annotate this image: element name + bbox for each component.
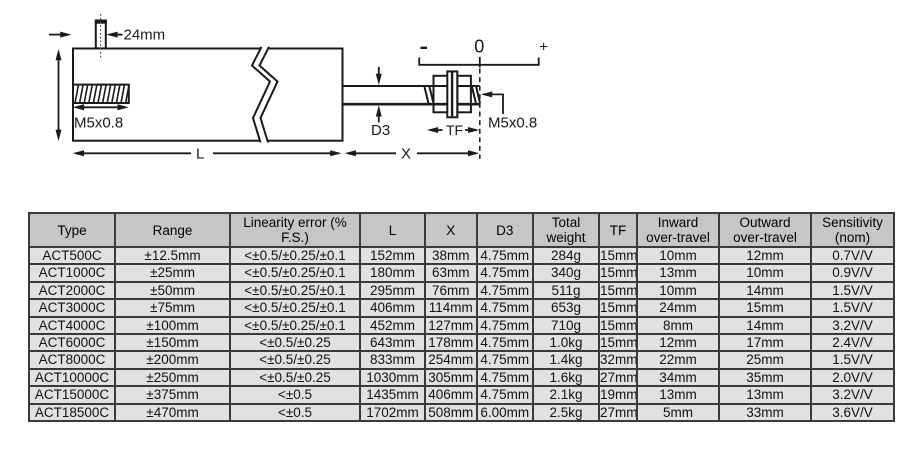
svg-text:D3: D3 <box>371 122 390 139</box>
svg-text:0: 0 <box>474 37 484 57</box>
leader M5x0.8 right <box>481 91 537 131</box>
shaft end hatch <box>472 87 480 103</box>
svg-text:+: + <box>539 39 548 56</box>
wire shaft bottom <box>343 103 480 106</box>
dim X <box>345 146 480 163</box>
flange washer <box>447 71 457 117</box>
thread hole hatch M5 <box>73 85 129 103</box>
spec table <box>28 212 895 422</box>
arrow top-left <box>49 34 62 36</box>
label TF arrows <box>427 122 479 138</box>
svg-text:M5x0.8: M5x0.8 <box>74 115 123 132</box>
svg-text:L: L <box>196 146 204 163</box>
label minus <box>421 47 428 49</box>
zero dashed line <box>479 57 481 68</box>
dim arrow thread length <box>76 106 126 108</box>
break zigzag <box>252 45 278 144</box>
label 24mm with arrow <box>110 34 123 36</box>
nut right half <box>457 76 471 113</box>
vertical dim arrow left <box>58 57 60 133</box>
nut left half <box>434 76 448 113</box>
pin stud <box>95 14 107 59</box>
nut left hatch <box>425 87 434 103</box>
dim L <box>73 146 342 163</box>
svg-text:M5x0.8: M5x0.8 <box>488 115 537 132</box>
svg-text:TF: TF <box>446 122 463 138</box>
body <box>73 49 343 141</box>
scale bracket <box>419 58 539 65</box>
label D3 arrows <box>371 67 390 139</box>
wire shaft top <box>343 85 480 87</box>
svg-text:X: X <box>401 146 411 163</box>
svg-text:24mm: 24mm <box>124 27 166 44</box>
